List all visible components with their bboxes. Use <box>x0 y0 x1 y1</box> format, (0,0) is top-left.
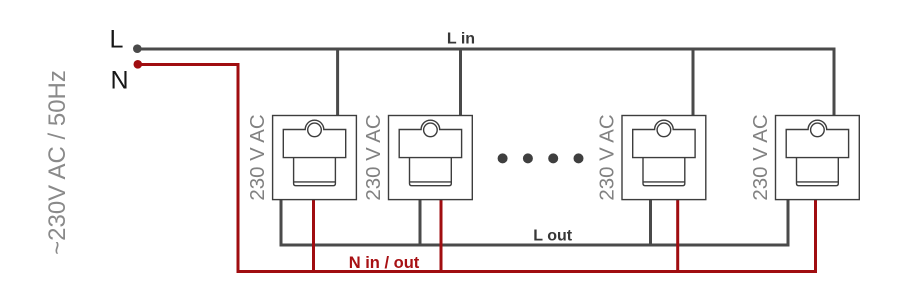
wire L bus top <box>138 49 834 116</box>
wire N drop PIR1 <box>312 200 315 272</box>
ellipsis more sensors <box>498 153 584 163</box>
node L terminal <box>133 44 142 53</box>
svg-text:230 V AC: 230 V AC <box>750 114 772 200</box>
svg-text:230 V AC: 230 V AC <box>363 114 385 200</box>
svg-text:N in / out: N in / out <box>349 254 420 272</box>
svg-text:L out: L out <box>533 228 572 245</box>
sensor PIR2 <box>389 116 473 200</box>
wire N drop PIR3 <box>676 200 679 272</box>
sensor PIR3 <box>622 116 706 200</box>
sensor PIR1 <box>273 116 357 200</box>
svg-text:230 V AC: 230 V AC <box>247 114 269 200</box>
svg-text:~230V AC / 50Hz: ~230V AC / 50Hz <box>44 70 71 255</box>
wire L drop to PIR2 <box>459 49 462 116</box>
svg-text:L: L <box>110 26 124 54</box>
svg-text:N: N <box>111 67 129 95</box>
wire N drop PIR2 <box>440 200 443 272</box>
wire N bus <box>139 65 816 272</box>
node N terminal <box>134 60 143 69</box>
wire L out stub PIR3 <box>649 200 652 245</box>
wire L drop to PIR3 <box>692 49 695 116</box>
wire L out bus <box>281 200 788 245</box>
wire L drop to PIR1 <box>336 49 339 116</box>
wire L out stub PIR2 <box>419 200 422 245</box>
svg-text:230 V AC: 230 V AC <box>597 114 619 200</box>
svg-text:L in: L in <box>447 31 475 48</box>
sensor PIR4 <box>776 116 860 200</box>
